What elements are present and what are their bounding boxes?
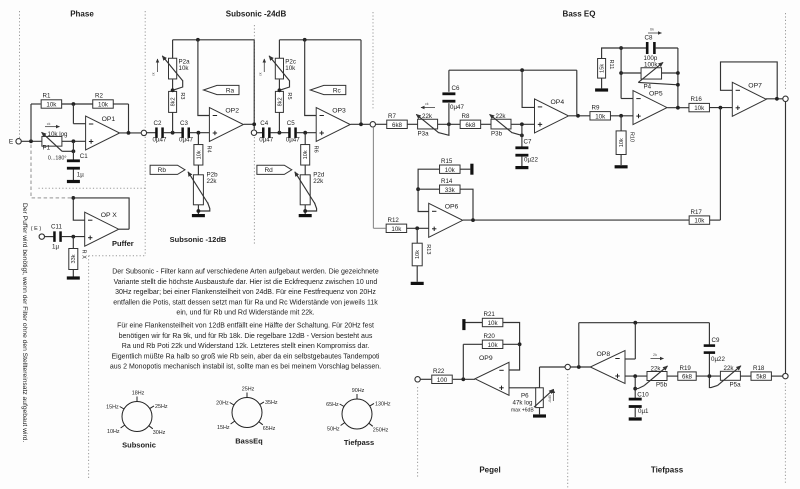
dotted border Puffer box bottom <box>89 255 146 257</box>
svg-text:10k: 10k <box>46 102 57 109</box>
ground below C7 <box>515 166 528 169</box>
feedback top wire OP4 <box>449 69 577 71</box>
wire OP8 minus leg <box>625 358 635 360</box>
svg-text:C11: C11 <box>51 224 62 231</box>
wiper connect P3b <box>512 133 522 136</box>
wire P1 wiper to C1 node <box>62 150 73 152</box>
resistor R22 100 <box>432 375 453 383</box>
capacitor C7 0u22 <box>515 146 528 149</box>
wire R9 to OP5 plus input <box>611 115 634 117</box>
wire R14 right to output <box>460 189 473 220</box>
capacitor C2 0u47 <box>155 127 158 138</box>
wire R12 to OP6 plus input <box>407 227 429 229</box>
wire C7 node down <box>521 124 523 146</box>
svg-text:8k2: 8k2 <box>171 97 177 106</box>
resistor R7 6k8 <box>387 120 408 128</box>
wire R14 left <box>418 188 439 190</box>
svg-text:2k: 2k <box>653 353 657 357</box>
adjust arrow P6 rotated <box>552 390 554 402</box>
svg-text:0µ47: 0µ47 <box>259 137 273 144</box>
resistor R16 10k <box>689 103 710 111</box>
potentiometer P3b 22k <box>491 119 511 129</box>
resistor R4 10k <box>194 145 203 166</box>
svg-text:benötigen wir für Ra 9k, und f: benötigen wir für Ra 9k, und für Rb 18k.… <box>119 333 373 340</box>
ground below C10 <box>629 417 642 420</box>
wire R22 to OP9 output <box>453 378 475 380</box>
resistor R9 10k <box>590 112 611 120</box>
svg-text:OP8: OP8 <box>597 351 611 358</box>
svg-text:entfallen die Potis, statt des: entfallen die Potis, statt dessen setzt … <box>113 299 378 306</box>
terminal Subsonic output <box>370 122 375 127</box>
svg-text:OP3: OP3 <box>332 108 346 115</box>
svg-text:0µ47: 0µ47 <box>179 137 193 144</box>
node C7 junction <box>520 122 524 126</box>
terminal BassEQ output <box>783 96 788 101</box>
svg-text:Pegel: Pegel <box>479 466 500 475</box>
wire junction down to OP1 minus input <box>72 104 74 124</box>
wire R15 right to ground <box>460 168 470 170</box>
wire R1 to R2 <box>62 103 93 105</box>
capacitor C3 0u47 <box>181 127 184 138</box>
node P4 left junction <box>619 71 623 75</box>
potentiometer P5b 22k <box>647 372 667 381</box>
node A stage2 <box>278 131 282 135</box>
svg-text:10k: 10k <box>98 102 109 109</box>
node R14 left junction <box>416 187 420 191</box>
section separator: Phase left dotted line <box>19 11 21 138</box>
op-amp OP4 <box>535 99 569 133</box>
node OP4 feedback junction <box>576 114 580 118</box>
potentiometer P4 100k <box>641 68 662 79</box>
potentiometer P2d 22k <box>300 175 310 205</box>
svg-text:0...180°: 0...180° <box>48 155 67 161</box>
svg-text:C6: C6 <box>452 85 460 92</box>
svg-text:Phase: Phase <box>70 10 94 19</box>
wire R8 to P3b <box>481 123 491 125</box>
wiper connect P2c <box>279 81 289 91</box>
svg-text:R3: R3 <box>179 92 185 99</box>
svg-text:10k: 10k <box>488 320 499 327</box>
svg-text:47k log: 47k log <box>513 400 534 407</box>
wire P4 left <box>621 72 641 74</box>
svg-text:20Hz: 20Hz <box>216 401 229 407</box>
capacitor C6 0u47 <box>442 92 455 95</box>
resistor R11 15k <box>598 59 606 79</box>
capacitor C8 100p <box>646 42 649 54</box>
wire OPX minus loop <box>73 198 84 220</box>
svg-text:130Hz: 130Hz <box>375 401 391 407</box>
svg-text:Tiefpass: Tiefpass <box>651 466 684 475</box>
wire OPX output <box>119 228 129 230</box>
svg-text:P5a: P5a <box>730 381 742 388</box>
svg-text:10k: 10k <box>694 105 705 112</box>
dial Subsonic <box>122 402 152 432</box>
node OP7 plus junction <box>719 106 723 110</box>
wire R13 to ground <box>416 266 418 282</box>
svg-text:R9: R9 <box>592 105 600 112</box>
svg-text:0µ22: 0µ22 <box>711 356 725 363</box>
wire R21 right leg down <box>503 323 520 371</box>
wire C9 top to feedback wire <box>708 323 710 345</box>
op-amp OP2 <box>209 108 243 142</box>
svg-text:R15: R15 <box>441 158 453 165</box>
svg-text:90Hz: 90Hz <box>352 388 365 394</box>
svg-text:R22: R22 <box>433 368 445 375</box>
svg-text:65Hz: 65Hz <box>326 402 339 408</box>
wire R7 to P3a <box>407 123 417 125</box>
wire R6 to P2d <box>304 165 306 175</box>
op-amp OP9 <box>475 362 509 395</box>
svg-text:C7: C7 <box>524 139 532 146</box>
svg-text:Rb: Rb <box>158 167 167 174</box>
svg-text:OP X: OP X <box>101 212 118 219</box>
svg-text:Der Subsonic - Filter kann auf: Der Subsonic - Filter kann auf verschied… <box>112 269 379 276</box>
ground below RX <box>67 276 80 279</box>
pennant Ra <box>204 85 240 94</box>
wire C2 to C3 <box>164 132 182 134</box>
node B stage2 <box>303 131 307 135</box>
wire plus node down to C10 <box>634 376 636 398</box>
pennant Rd <box>257 165 292 174</box>
svg-text:R2: R2 <box>95 93 103 100</box>
svg-text:OP6: OP6 <box>445 203 459 210</box>
wire node A up to R3 <box>172 112 174 132</box>
op-amp OP1 <box>86 116 120 150</box>
wire node up to R20 <box>462 344 464 379</box>
svg-text:C1: C1 <box>80 153 88 160</box>
svg-text:65Hz: 65Hz <box>263 426 276 432</box>
wiper connect P5b <box>635 386 644 389</box>
svg-text:35Hz: 35Hz <box>265 400 278 406</box>
capacitor C4 0u47 <box>262 127 265 138</box>
terminal (E) Puffer input <box>39 234 44 239</box>
wire R18 to terminal <box>771 375 782 377</box>
node R10 junction <box>619 114 623 118</box>
svg-text:ck: ck <box>258 72 262 76</box>
svg-text:BassEq: BassEq <box>235 437 263 446</box>
svg-text:10k log: 10k log <box>48 131 69 138</box>
svg-text:( E ): ( E ) <box>31 226 42 232</box>
wire terminal left to P6 column <box>540 366 565 368</box>
capacitor C1 1u <box>67 159 80 162</box>
svg-text:Subsonic: Subsonic <box>122 441 156 450</box>
svg-text:22k: 22k <box>724 365 735 372</box>
svg-text:Subsonic -12dB: Subsonic -12dB <box>170 235 227 244</box>
wire OP4 output to R9 <box>569 115 590 117</box>
svg-text:ein, und für Rb und Rd Widerst: ein, und für Rb und Rd Widerstände mit 2… <box>176 310 314 317</box>
wire node down to RX <box>72 237 74 249</box>
wire subsonic terminal down to R12 <box>372 127 374 228</box>
section separator: Phase/Subsonic dotted line <box>144 11 146 256</box>
wire tap down to OP3 minus input <box>305 40 317 116</box>
svg-text:C8: C8 <box>645 35 653 42</box>
terminal Pegel output <box>415 377 420 382</box>
svg-text:aus 2 Monopotis mechanisch ins: aus 2 Monopotis mechanisch instabil ist,… <box>110 364 381 371</box>
svg-text:R18: R18 <box>753 365 765 372</box>
op-amp OP5 <box>633 91 667 125</box>
wire P3b to OP4 plus input <box>511 123 535 125</box>
svg-text:5k8: 5k8 <box>756 374 767 381</box>
op-amp OP8 <box>590 351 625 384</box>
node input junction <box>29 139 33 143</box>
svg-text:R10: R10 <box>629 132 635 142</box>
resistor R17 10k <box>689 216 710 224</box>
feedback top wire OP8 <box>579 322 710 324</box>
svg-text:15Hz: 15Hz <box>106 405 119 411</box>
svg-text:E: E <box>9 139 14 146</box>
feedback top wire stage1 <box>173 39 255 41</box>
capacitor C11 1u <box>53 231 56 242</box>
node OP3 output junction <box>359 122 363 126</box>
wire OP7 minus loop <box>721 62 778 99</box>
wire C7 to ground <box>521 156 523 166</box>
adjust arrow P3a <box>421 107 435 109</box>
svg-text:R14: R14 <box>441 178 453 185</box>
node B stage1 <box>197 131 201 135</box>
potentiometer P2c 10k <box>275 58 283 79</box>
svg-text:C2: C2 <box>154 120 162 127</box>
svg-text:10k: 10k <box>303 150 309 159</box>
wire C10 to ground <box>634 407 636 417</box>
wiper connect P2b <box>198 203 209 212</box>
terminal Tiefpass output <box>565 364 570 369</box>
wire feedback right leg stage1 <box>253 40 255 130</box>
wire node A up to R5 <box>278 112 280 132</box>
wire terminal to C4 <box>257 132 263 134</box>
svg-text:Subsonic -24dB: Subsonic -24dB <box>226 10 287 19</box>
svg-text:-6dB: -6dB <box>548 395 552 403</box>
wire P2a top to feedback wire <box>172 40 174 59</box>
node Puffer input junction <box>71 235 75 239</box>
svg-text:1µ: 1µ <box>77 172 84 179</box>
dial BassEq <box>232 398 262 428</box>
wire OP3 output to terminal <box>351 123 370 125</box>
node OP6 feedback junction <box>471 218 475 222</box>
ground below P6 <box>533 414 546 417</box>
wire C3 to OP2 plus input <box>190 132 210 134</box>
wire OP2 output <box>244 123 255 125</box>
op-amp OP3 <box>316 108 350 142</box>
svg-text:50Hz: 50Hz <box>327 426 340 432</box>
wire R10 to ground <box>620 155 622 166</box>
svg-text:15k: 15k <box>600 64 606 73</box>
svg-text:100k: 100k <box>644 62 658 69</box>
wire feedback left leg OP8 <box>578 323 580 367</box>
wire P5b to R19 <box>667 375 678 377</box>
wiper connect P2a <box>173 81 183 91</box>
node P4 wiper junction <box>676 83 680 87</box>
wire P2c top to feedback wire <box>278 40 280 59</box>
svg-text:10k: 10k <box>445 167 456 174</box>
resistor R8 6k8 <box>460 120 481 128</box>
capacitor C9 0u22 <box>704 344 715 347</box>
svg-text:Puffer: Puffer <box>112 239 134 248</box>
svg-text:Tiefpass: Tiefpass <box>344 438 374 447</box>
node OP4 minus tap <box>520 68 524 72</box>
ground below P2b <box>192 214 205 217</box>
wire R4 to P2b <box>197 165 199 175</box>
svg-text:250Hz: 250Hz <box>373 427 389 433</box>
svg-text:Eigentlich müßte Ra halb so gr: Eigentlich müßte Ra halb so groß wie Rb … <box>112 353 380 360</box>
wire OP6 output long to R17 <box>463 219 689 221</box>
wire P6 top to terminal wire <box>539 367 541 388</box>
svg-text:OP9: OP9 <box>479 355 493 362</box>
wire terminal to R22 <box>421 378 432 380</box>
wire R16 to OP7 plus input <box>710 107 733 109</box>
svg-text:22k: 22k <box>422 113 433 120</box>
wire C4 to C5 <box>270 132 288 134</box>
svg-text:10k: 10k <box>179 65 190 72</box>
resistor R20 10k <box>482 340 503 348</box>
wire OP8 plus input to P5b <box>625 375 647 377</box>
svg-text:25Hz: 25Hz <box>155 404 168 410</box>
wire (E) to C11 <box>45 236 54 238</box>
svg-text:P5b: P5b <box>656 382 668 389</box>
dial Tiefpass <box>342 399 372 429</box>
ground below R10 <box>615 165 628 168</box>
node A stage1 <box>171 131 175 135</box>
feedback top wire stage2 <box>279 39 361 41</box>
svg-text:18Hz: 18Hz <box>132 391 145 397</box>
resistor R15 10k <box>440 165 461 173</box>
svg-text:30Hz: 30Hz <box>153 430 166 436</box>
section separator: top right dotted line <box>785 13 787 91</box>
section separator: Pegel/Tiefpass dotted line <box>567 374 569 489</box>
svg-text:R1: R1 <box>43 93 51 100</box>
wire P4 right <box>662 72 678 74</box>
svg-text:15Hz: 15Hz <box>217 425 230 431</box>
wire R10 down <box>620 116 622 131</box>
svg-text:10k: 10k <box>619 138 625 147</box>
section separator: below Pegel input terminal <box>417 387 419 477</box>
node feedback tap stage1 <box>196 38 200 42</box>
svg-text:6k8: 6k8 <box>392 122 403 129</box>
ground below R13 <box>411 282 424 285</box>
svg-text:C3: C3 <box>180 120 188 127</box>
svg-text:R20: R20 <box>484 333 496 340</box>
adjust arrow for P1 <box>45 126 60 128</box>
wire RX to ground <box>72 270 74 277</box>
svg-text:10k: 10k <box>694 218 705 225</box>
adjust arrow P2c <box>263 59 265 72</box>
wire R11 top <box>602 48 647 59</box>
svg-text:R11: R11 <box>608 60 614 70</box>
wire P3a to R8 <box>438 123 461 125</box>
svg-text:33k: 33k <box>445 187 456 194</box>
node wiper junction <box>72 149 76 153</box>
pennant Rb <box>150 165 185 174</box>
capacitor C5 0u47 <box>288 127 291 138</box>
wire R3 to P2a wiper node <box>172 80 174 92</box>
wire OP6 minus leg <box>418 169 439 211</box>
svg-text:22k: 22k <box>496 113 507 120</box>
svg-text:10k: 10k <box>488 342 499 349</box>
wire R19 to C9 node <box>696 375 720 377</box>
potentiometer P2b 22k <box>193 175 203 205</box>
wire C8 to right leg <box>655 47 678 49</box>
ground below P2d <box>299 214 312 217</box>
wire C5 to OP3 plus input <box>297 132 317 134</box>
wiper connect P5a <box>709 376 717 388</box>
node feedback top junction <box>71 196 75 200</box>
svg-text:C9: C9 <box>712 337 720 344</box>
node OP8 minus tap <box>633 321 637 325</box>
wire R5 to P2c wiper node <box>278 80 280 92</box>
svg-text:OP4: OP4 <box>551 99 565 106</box>
wire R20 right <box>503 343 520 345</box>
svg-text:10k: 10k <box>415 250 421 259</box>
wire node down to C1 <box>72 141 74 159</box>
node P2c bottom junction <box>278 88 282 92</box>
svg-text:0µ22: 0µ22 <box>524 157 538 164</box>
svg-text:Bass EQ: Bass EQ <box>563 10 596 19</box>
wiper connect P2d <box>305 203 316 212</box>
node OP5 output junction <box>676 106 680 110</box>
wiper connect P4 <box>638 82 678 84</box>
wire terminal to C2 <box>147 132 156 134</box>
svg-text:8k2: 8k2 <box>277 97 283 106</box>
dotted border Puffer box top <box>39 187 146 189</box>
resistor R18 5k8 <box>751 372 771 380</box>
wire OP5 minus leg <box>621 98 633 100</box>
wire R21 left <box>466 322 483 324</box>
wire terminal to R7 <box>376 123 387 125</box>
svg-text:R7: R7 <box>388 113 396 120</box>
resistor R13 10k <box>412 243 422 266</box>
wire P1 to OP1 plus input <box>62 140 86 142</box>
node P1 output junction <box>72 139 76 143</box>
wire R11 bottom to ground <box>601 78 603 88</box>
svg-text:22k: 22k <box>313 178 324 185</box>
svg-text:R13: R13 <box>425 244 431 254</box>
svg-text:OP1: OP1 <box>102 116 116 123</box>
resistor R14 33k <box>440 185 461 193</box>
svg-text:Für eine Flankensteilheit von: Für eine Flankensteilheit von 12dB entfä… <box>117 323 374 330</box>
node OP2 output junction <box>252 122 256 126</box>
section separator: Subsonic mid dotted line <box>253 25 255 129</box>
svg-text:C5: C5 <box>287 120 295 127</box>
wire OP1 output to terminal <box>120 132 141 134</box>
op-amp OP X <box>85 212 119 246</box>
svg-text:R6: R6 <box>312 146 318 153</box>
svg-text:22k: 22k <box>651 365 662 372</box>
potentiometer P1 10k log <box>42 136 62 146</box>
node OP7 output junction <box>775 97 779 101</box>
resistor R3 8k2 <box>169 91 177 112</box>
resistor R X 33k <box>69 249 78 270</box>
potentiometer P2a 10k <box>169 58 177 79</box>
wire feedback right leg stage2 <box>360 40 362 125</box>
svg-text:33k: 33k <box>71 254 77 263</box>
svg-text:6k8: 6k8 <box>682 374 693 381</box>
resistor R6 10k <box>301 145 310 166</box>
svg-text:C10: C10 <box>637 392 649 399</box>
wire feedback right leg OP5 <box>677 48 679 108</box>
svg-text:Ra und Rb Poti 22k und Widerst: Ra und Rb Poti 22k und Widerstand 12k. L… <box>122 343 370 350</box>
terminal between stages <box>251 130 256 135</box>
wire C1 to ground <box>72 170 74 181</box>
node C9 junction <box>708 374 712 378</box>
svg-text:OP2: OP2 <box>225 108 239 115</box>
node R1-R2 junction <box>72 102 76 106</box>
svg-text:R21: R21 <box>484 311 496 318</box>
resistor R10 10k <box>616 131 626 155</box>
op-amp OP6 <box>429 203 463 237</box>
svg-text:1µ: 1µ <box>52 244 59 251</box>
input terminal E <box>16 139 21 144</box>
wire P2d to ground <box>304 205 306 214</box>
node P2d wiper junction <box>303 209 307 213</box>
